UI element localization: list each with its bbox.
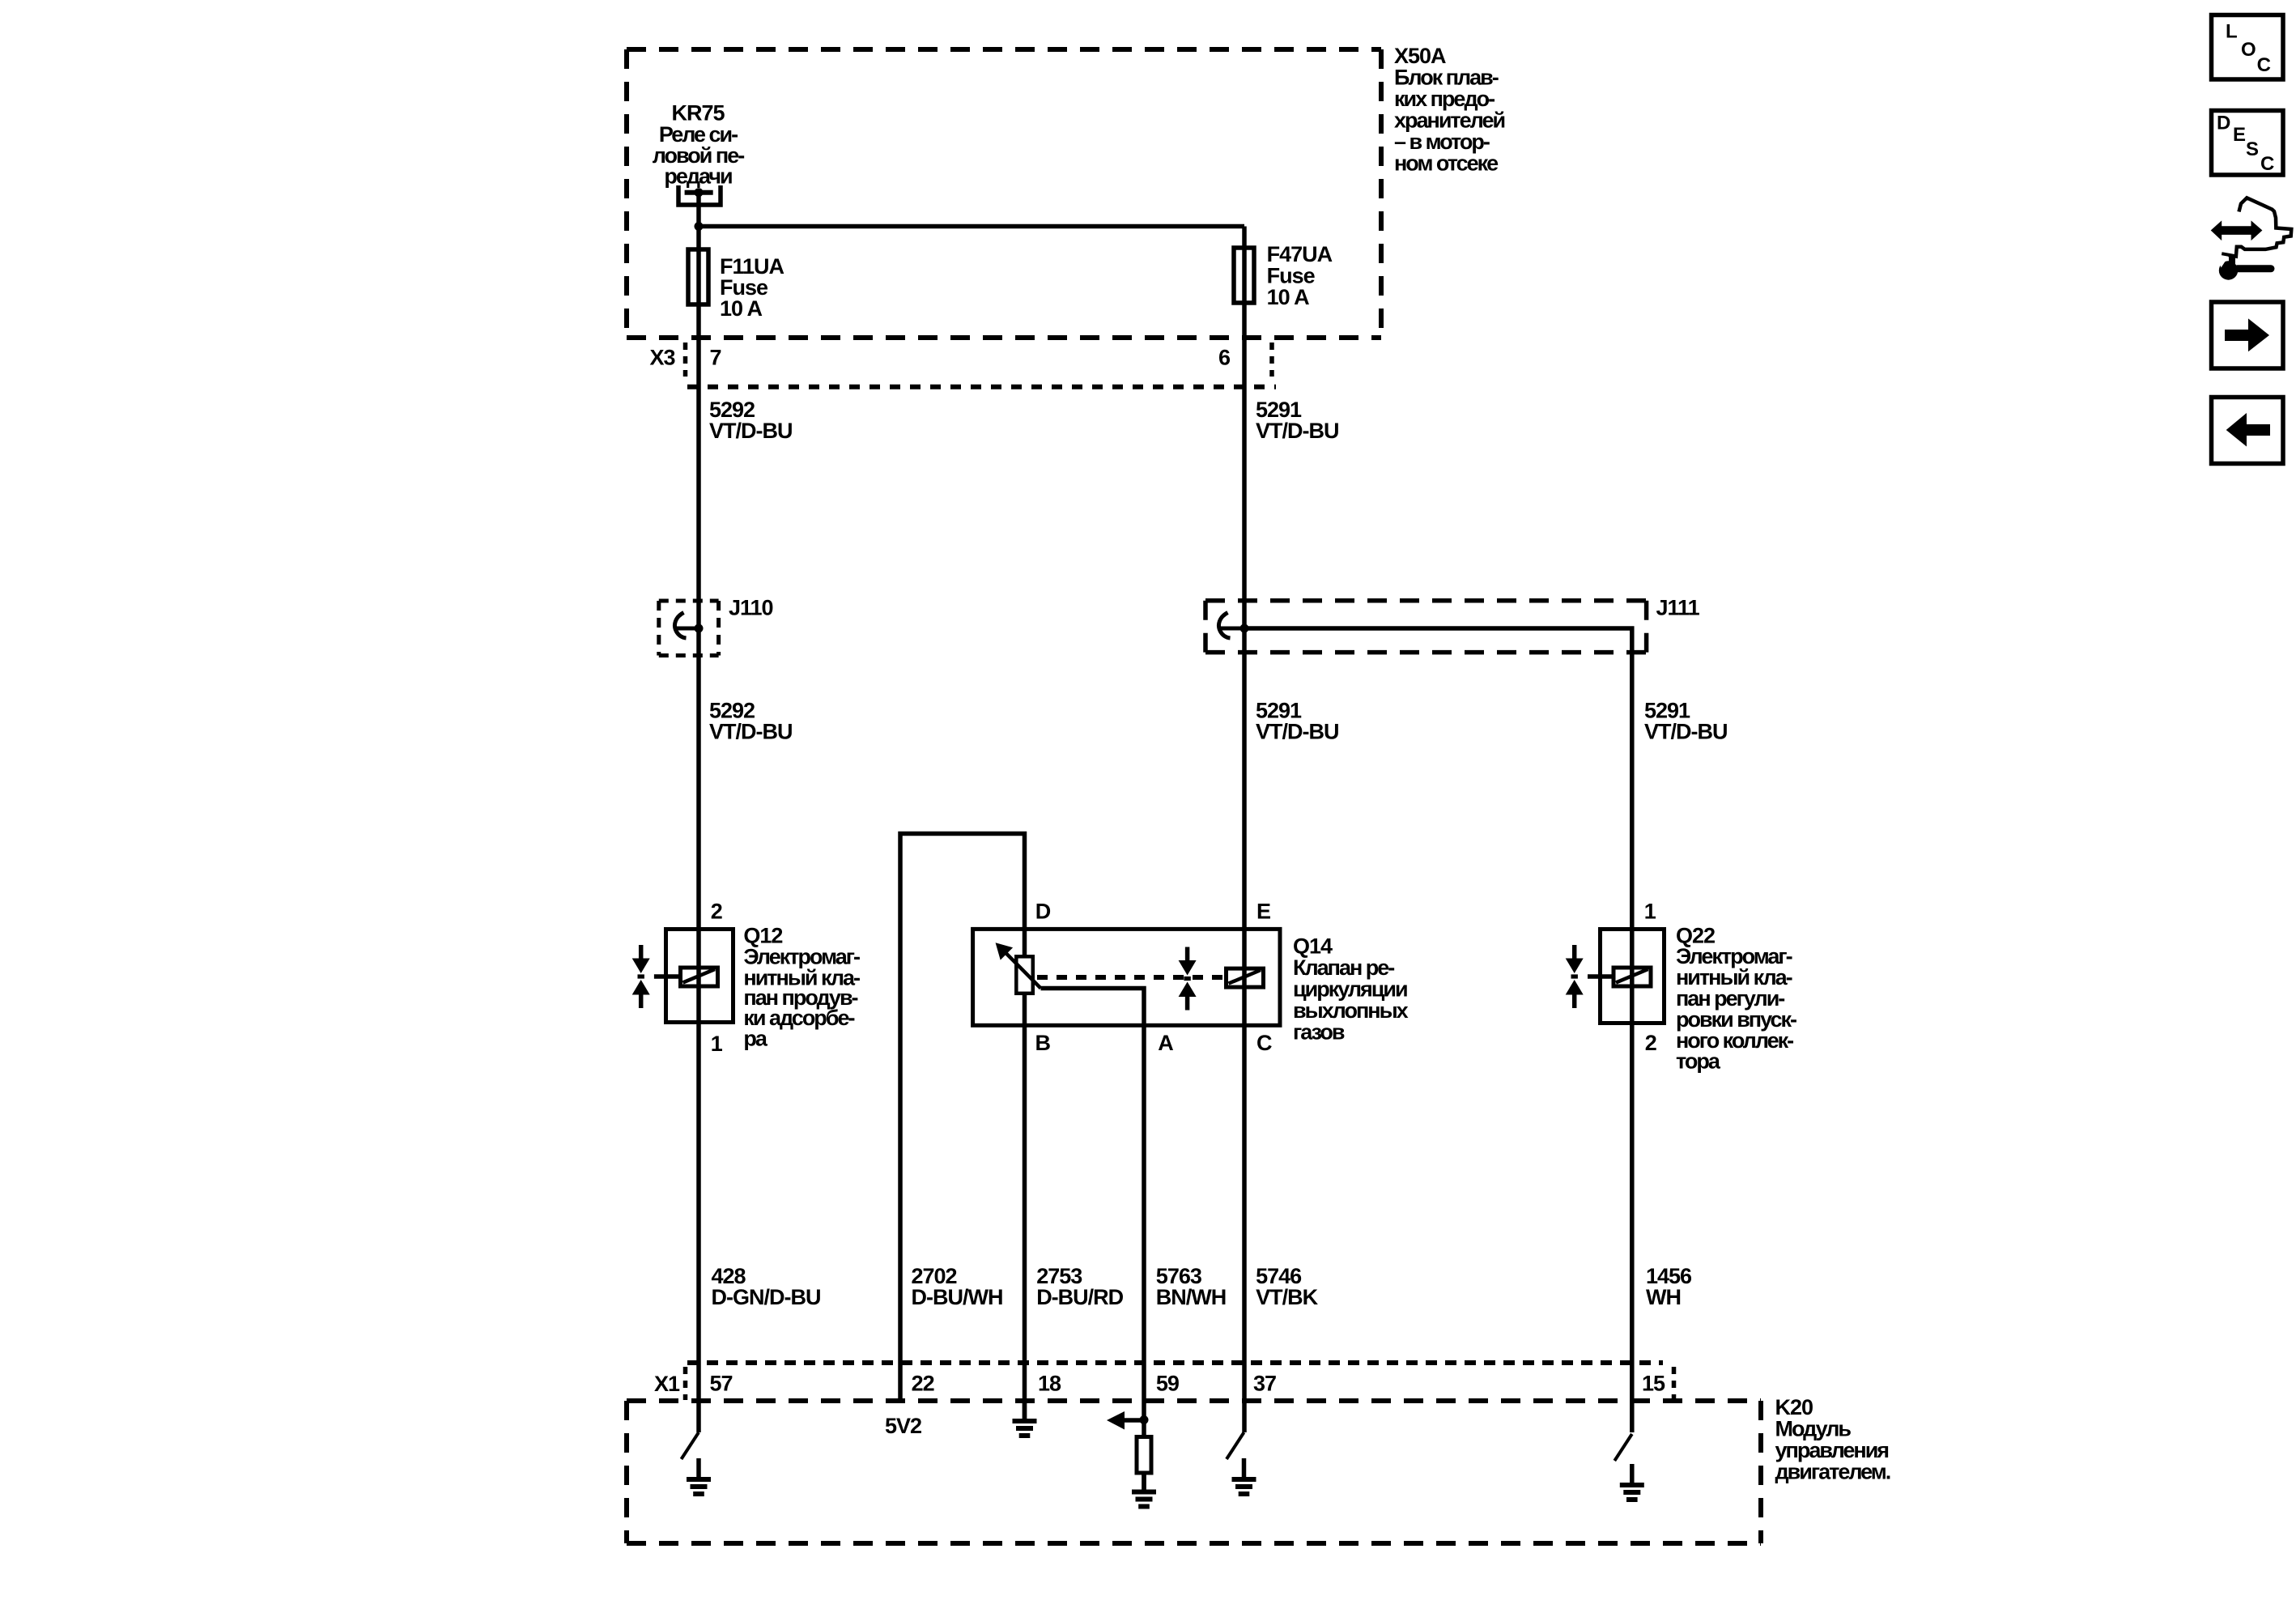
svg-text:2: 2 xyxy=(1645,1031,1656,1055)
Q14 valve symbol xyxy=(1179,947,1197,1011)
splice J111 symbol xyxy=(1218,613,1248,639)
wire: Q14 pin B down to ECM pin 18 xyxy=(1023,994,1027,1419)
wire label 5763 xyxy=(1156,1264,1226,1309)
Q14 internal wire to pin A xyxy=(1041,989,1145,1438)
wire: top horizontal branch to F47UA xyxy=(699,224,1244,229)
svg-text:E: E xyxy=(1256,900,1270,924)
svg-text:B: B xyxy=(1035,1031,1051,1055)
svg-text:ких предо-: ких предо- xyxy=(1394,87,1495,111)
arrow pin 59 xyxy=(1107,1411,1144,1430)
svg-text:D-GN/D-BU: D-GN/D-BU xyxy=(712,1285,821,1309)
svg-text:37: 37 xyxy=(1253,1371,1276,1395)
connector X1 row xyxy=(686,1363,1674,1400)
solenoid valve Q22 xyxy=(1566,930,1665,1023)
svg-text:BN/WH: BN/WH xyxy=(1156,1285,1226,1309)
connector X3 row xyxy=(686,343,1277,387)
svg-text:1: 1 xyxy=(711,1032,723,1056)
switch pin 37 xyxy=(1227,1432,1244,1459)
svg-text:VT/D-BU: VT/D-BU xyxy=(1644,720,1728,744)
relay KR75 contact symbol xyxy=(678,185,721,205)
fuse block X50A dashed box xyxy=(627,49,1381,338)
fuse F11UA xyxy=(688,249,708,304)
ground pin 18 xyxy=(1013,1400,1037,1436)
wire: left branch from relay down to ECM xyxy=(696,193,701,1432)
svg-text:VT/D-BU: VT/D-BU xyxy=(709,419,793,443)
svg-text:5V2: 5V2 xyxy=(885,1414,921,1438)
svg-text:7: 7 xyxy=(710,345,721,369)
svg-text:D-BU/WH: D-BU/WH xyxy=(912,1285,1003,1309)
wire label 428 xyxy=(712,1264,821,1309)
Q14 solenoid xyxy=(1227,968,1264,987)
ground pin 37 xyxy=(1232,1458,1256,1494)
connector X3 labels xyxy=(650,345,1231,369)
svg-text:X50A: X50A xyxy=(1394,44,1446,68)
solenoid valve Q12 xyxy=(632,930,733,1023)
wire: J111 branch to Q22 xyxy=(1244,628,1632,1432)
svg-text:E: E xyxy=(2233,124,2246,146)
svg-text:VT/BK: VT/BK xyxy=(1256,1285,1319,1309)
svg-text:18: 18 xyxy=(1038,1371,1061,1395)
fuse F11UA label xyxy=(720,254,784,321)
relay KR75 label xyxy=(653,101,744,189)
svg-text:VT/D-BU: VT/D-BU xyxy=(1256,720,1339,744)
svg-text:59: 59 xyxy=(1156,1371,1180,1395)
svg-text:L: L xyxy=(2226,21,2237,43)
wire label 5291 center xyxy=(1256,698,1339,743)
ground pin 59 xyxy=(1132,1471,1156,1507)
wire label 2702 xyxy=(912,1264,1003,1309)
svg-text:10 A: 10 A xyxy=(720,296,763,321)
svg-text:VT/D-BU: VT/D-BU xyxy=(1256,419,1339,443)
svg-text:15: 15 xyxy=(1642,1371,1665,1395)
svg-text:J110: J110 xyxy=(729,595,773,619)
wire label 1456 xyxy=(1646,1264,1692,1309)
K20 label xyxy=(1775,1395,1890,1484)
wire: right branch down from horizontal to ECM pin 37 xyxy=(1242,227,1247,1433)
svg-text:A: A xyxy=(1158,1031,1173,1055)
svg-text:Блок плав-: Блок плав- xyxy=(1394,65,1499,89)
svg-text:J111: J111 xyxy=(1656,595,1700,619)
fuse F47UA label xyxy=(1267,242,1333,309)
svg-text:хранителей: хранителей xyxy=(1394,108,1504,132)
svg-text:2: 2 xyxy=(711,900,722,924)
svg-text:C: C xyxy=(2260,153,2274,175)
wire label 5291 upper xyxy=(1256,398,1339,443)
Q14 potentiometer xyxy=(996,943,1041,994)
X50A label text xyxy=(1394,44,1504,176)
svg-text:F47UA: F47UA xyxy=(1267,242,1333,266)
svg-text:K20: K20 xyxy=(1775,1395,1813,1419)
splice J110 symbol xyxy=(674,613,703,639)
wire below resistor xyxy=(1142,1473,1146,1490)
LOC icon box xyxy=(2212,15,2284,80)
svg-text:VT/D-BU: VT/D-BU xyxy=(709,720,793,744)
svg-text:редачи: редачи xyxy=(664,164,732,188)
connector X1 labels xyxy=(654,1371,1665,1396)
node: pin 59 junction dot xyxy=(1140,1415,1149,1424)
svg-text:ном отсеке: ном отсеке xyxy=(1394,151,1499,175)
ground pin 15 xyxy=(1620,1464,1644,1500)
ground pin 57 xyxy=(687,1458,711,1494)
Q12 label xyxy=(743,923,860,1050)
wire label 5746 xyxy=(1256,1264,1319,1309)
DESC icon box xyxy=(2212,111,2284,176)
forward arrow icon box xyxy=(2212,302,2284,368)
svg-text:6: 6 xyxy=(1218,345,1231,369)
svg-text:O: O xyxy=(2241,39,2256,61)
Q14 internal dashed link xyxy=(1037,975,1222,980)
wire label 2753 xyxy=(1036,1264,1123,1309)
svg-text:D: D xyxy=(1035,900,1051,924)
switch pin 15 xyxy=(1614,1434,1632,1461)
wire: pin 22 branch up and over to Q14 pin D xyxy=(900,834,1025,1403)
EGR valve Q14 box xyxy=(973,929,1280,1025)
switch pin 57 xyxy=(682,1432,699,1459)
svg-text:выхлопных: выхлопных xyxy=(1293,998,1409,1023)
wire label 5292 lower xyxy=(709,698,793,743)
svg-text:C: C xyxy=(1256,1031,1272,1055)
svg-text:ра: ра xyxy=(743,1026,767,1050)
svg-text:управления: управления xyxy=(1775,1438,1889,1462)
svg-text:10 A: 10 A xyxy=(1267,285,1310,309)
svg-text:двигателем.: двигателем. xyxy=(1775,1460,1890,1484)
svg-text:X1: X1 xyxy=(654,1372,680,1396)
back arrow icon box xyxy=(2212,398,2284,464)
svg-text:циркуляции: циркуляции xyxy=(1293,977,1407,1002)
svg-text:57: 57 xyxy=(710,1371,733,1395)
svg-text:22: 22 xyxy=(912,1371,934,1395)
Q22 label xyxy=(1676,923,1796,1073)
fuse F47UA xyxy=(1234,248,1254,303)
resistor pin 59 xyxy=(1137,1437,1151,1474)
svg-text:D: D xyxy=(2217,112,2230,134)
svg-text:тора: тора xyxy=(1676,1049,1721,1074)
svg-text:газов: газов xyxy=(1293,1020,1345,1045)
svg-text:– в мотор-: – в мотор- xyxy=(1394,130,1490,154)
svg-text:Модуль: Модуль xyxy=(1775,1417,1852,1441)
node: junction dot below relay xyxy=(695,222,704,231)
ECM K20 dashed box xyxy=(627,1401,1761,1543)
Q14 label xyxy=(1293,934,1409,1045)
splice J111 dashed box xyxy=(1205,601,1647,653)
svg-text:S: S xyxy=(2246,138,2259,160)
svg-text:D-BU/RD: D-BU/RD xyxy=(1036,1285,1123,1309)
svg-text:C: C xyxy=(2257,54,2271,76)
vehicle service icon xyxy=(2211,198,2292,279)
wire label 5291 right xyxy=(1644,698,1728,743)
svg-text:Клапан ре-: Клапан ре- xyxy=(1293,955,1394,980)
wire label 5292 upper xyxy=(709,398,793,443)
svg-text:WH: WH xyxy=(1646,1285,1681,1309)
svg-text:X3: X3 xyxy=(650,345,676,369)
svg-text:1: 1 xyxy=(1644,900,1656,924)
svg-text:Fuse: Fuse xyxy=(1267,263,1316,287)
splice J110 dashed box xyxy=(659,601,719,656)
svg-text:Q14: Q14 xyxy=(1293,934,1333,959)
